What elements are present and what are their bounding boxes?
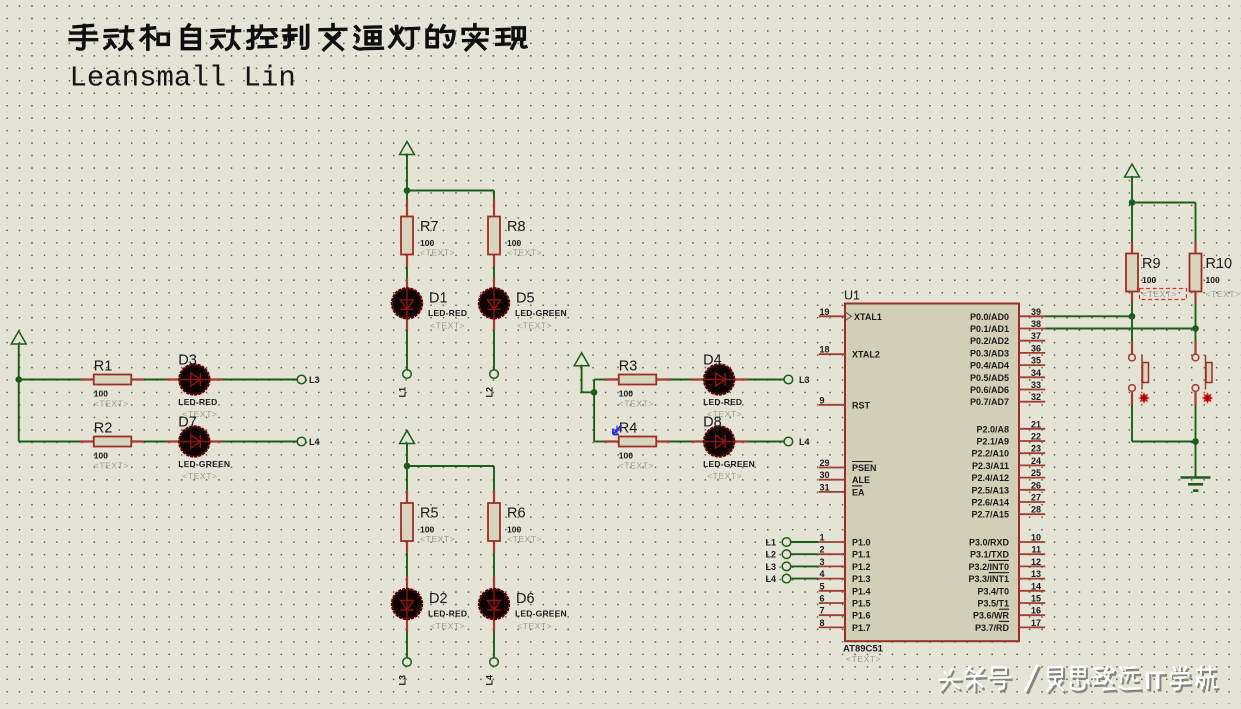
svg-text:100: 100 [619,451,633,461]
svg-text:5: 5 [820,581,825,591]
pins of D3 [166,378,222,380]
terminal (below D2) [403,658,412,667]
wire junction to button [1131,316,1133,341]
svg-text:P3.0/RXD: P3.0/RXD [969,538,1010,548]
svg-text:LED-RED: LED-RED [428,308,467,318]
svg-text:P3.1/TXD: P3.1/TXD [970,550,1010,560]
selection highlight (red dashed) around R9 TEXT [1140,289,1187,300]
wire down to R6 [493,466,495,490]
svg-text:P1.6: P1.6 [852,611,871,621]
svg-text:R8: R8 [507,219,526,235]
U1 pin 10 P3.0/RXD [969,533,1045,548]
pins of R6 [493,490,495,553]
svg-text:P0.1/AD1: P0.1/AD1 [970,324,1009,334]
IC U1 AT89C51 body [843,289,1019,665]
U1 pin 9 RST [819,395,871,410]
svg-text:P2.4/A12: P2.4/A12 [971,473,1009,483]
svg-text:R9: R9 [1142,256,1161,272]
svg-text:D7: D7 [178,415,197,431]
power symbol (middle top) [400,142,415,155]
svg-text:R2: R2 [94,421,113,437]
pin to button 2 [1194,341,1196,354]
svg-text:L2: L2 [765,550,776,560]
push button (left) [1129,354,1149,391]
pins of R7 [406,199,408,267]
svg-text:37: 37 [1031,331,1041,341]
svg-text:1: 1 [820,533,825,543]
svg-text:R5: R5 [420,506,439,522]
pins of D6 [493,576,495,631]
LED D3 (LED-RED) [178,353,217,420]
svg-text:<TEXT>: <TEXT> [94,461,129,471]
svg-text:25: 25 [1031,468,1041,478]
svg-text:100: 100 [94,451,108,461]
svg-text:24: 24 [1031,456,1041,466]
svg-text:LED-GREEN: LED-GREEN [515,308,567,318]
svg-text:100: 100 [619,389,633,399]
svg-text:4: 4 [820,569,825,579]
resistor R7 [401,217,455,258]
wire D5 to terminal [493,330,495,370]
svg-text:26: 26 [1031,480,1041,490]
pins of R3 [604,378,670,380]
LED D7 (LED-GREEN) [178,415,230,482]
junction [404,463,411,470]
wire pin39 to R9 net [1045,315,1132,317]
svg-text:39: 39 [1031,307,1041,317]
svg-text:<TEXT>: <TEXT> [1206,289,1241,299]
svg-text:36: 36 [1031,343,1041,353]
resistor R4 [619,421,657,471]
svg-text:9: 9 [820,395,825,405]
svg-text:19: 19 [820,307,830,317]
svg-text:<TEXT>: <TEXT> [94,399,129,409]
pins of R5 [406,490,408,553]
svg-text:15: 15 [1031,594,1041,604]
actuation marker (red star) [1138,392,1150,404]
title text (Chinese): 手动和自动控制交通灯的实现 [70,24,526,49]
svg-text:P0.5/AD5: P0.5/AD5 [970,373,1009,383]
wire R10 to junction [1195,303,1197,329]
wire power stem [1131,176,1133,203]
resistor R6 [488,503,542,544]
pins of D1 [406,278,408,330]
svg-text:<TEXT>: <TEXT> [182,471,217,481]
svg-text:P2.5/A13: P2.5/A13 [971,485,1009,495]
U1 pin 38 P0.1/AD1 [970,319,1045,334]
svg-text:RST: RST [852,400,871,410]
LED D1 (LED-RED) [392,288,467,330]
junction [1129,199,1136,206]
U1 pin 12 P3.2/INT0 [968,557,1045,572]
U1 pin 30 ALE [819,470,870,485]
svg-text:P3.7/RD: P3.7/RD [975,623,1010,633]
LED D8 (LED-GREEN) [703,415,755,482]
resistor R3 [619,359,657,409]
svg-text:P3.3/INT1: P3.3/INT1 [968,574,1009,584]
wire power stem [406,154,408,191]
svg-text:XTAL2: XTAL2 [852,350,880,360]
pins of R1 [80,378,144,380]
wire L2 to pin 2 [791,553,819,555]
wire down to R7 [406,191,408,200]
wire down to R8 [493,191,495,200]
wire junction to button [1195,329,1197,342]
wire D4 to terminal L3 [748,379,784,381]
U1 pin 39 P0.0/AD0 [970,307,1045,322]
svg-text:P3.5/T1: P3.5/T1 [977,599,1009,609]
power symbol (right rail) [1125,164,1140,177]
resistor R5 [401,503,455,544]
wire R8 to D5 [493,267,495,279]
svg-text:LED-RED: LED-RED [428,609,467,619]
U1 pin 28 P2.7/A15 [971,505,1045,520]
svg-text:32: 32 [1031,392,1041,402]
terminal L3 (left) [297,375,306,384]
svg-text:100: 100 [420,238,434,248]
power symbol (left rail) [11,331,26,344]
svg-text:P0.4/AD4: P0.4/AD4 [970,361,1009,371]
svg-text:L2: L2 [485,387,495,398]
LED D4 (LED-RED) [703,353,742,420]
U1 pin 4 P1.3 [819,569,871,584]
U1 pin 3 P1.2 [819,557,871,572]
U1 pin 19 XTAL1 [819,307,882,322]
svg-text:2: 2 [820,545,825,555]
U1 pin 27 P2.6/A14 [971,493,1045,508]
U1 pin 2 P1.1 [819,545,871,560]
svg-text:14: 14 [1031,581,1041,591]
pins of D2 [406,576,408,631]
svg-text:L4: L4 [765,574,776,584]
wire down to R10 [1195,203,1197,243]
svg-text:100: 100 [1142,275,1156,285]
svg-text:L3: L3 [799,375,810,385]
wire D1 to terminal [406,330,408,370]
junction [1129,313,1136,320]
U1 pin 21 P2.0/A8 [976,419,1045,434]
svg-text:P2.6/A14: P2.6/A14 [971,498,1009,508]
svg-text:P1.5: P1.5 [852,599,871,609]
svg-text:8: 8 [820,618,825,628]
wire D2 to terminal [406,631,408,658]
svg-text:<TEXT>: <TEXT> [619,461,654,471]
svg-text:LED-GREEN: LED-GREEN [515,609,567,619]
push button (right) [1192,354,1212,391]
U1 pin 11 P3.1/TXD [970,545,1045,560]
svg-text:P1.7: P1.7 [852,623,871,633]
wire button2 down [1195,405,1197,442]
wire to R4 [594,441,604,443]
svg-text:P2.3/A11: P2.3/A11 [972,461,1009,471]
svg-text:P3.6/WR: P3.6/WR [973,611,1010,621]
junction [1192,438,1199,445]
svg-text:<TEXT>: <TEXT> [430,320,465,330]
U1 pin 17 P3.7/RD [975,618,1045,633]
terminal L3 (left of U1) [782,562,791,571]
wire D7 to terminal L4 [222,441,297,443]
pin below button 2 [1194,391,1196,405]
svg-text:D4: D4 [703,353,722,369]
U1 pin 37 P0.2/AD2 [970,331,1045,346]
power symbol (middle bottom) [400,431,415,444]
wire to R3 [594,379,604,381]
svg-text:<TEXT>: <TEXT> [619,399,654,409]
svg-text:100: 100 [507,238,521,248]
U1 pin 36 P0.3/AD3 [970,343,1045,358]
svg-text:P3.2/INT0: P3.2/INT0 [968,562,1009,572]
svg-text:13: 13 [1031,569,1041,579]
wire R2 to D7 [144,441,166,443]
wire D3 to terminal L3 [222,379,297,381]
svg-text:L3: L3 [398,675,408,686]
terminal L4 (left) [297,437,306,446]
svg-text:6: 6 [820,594,825,604]
terminal L1 (left of U1) [782,538,791,547]
wire R6 to D6 [493,553,495,576]
svg-text:3: 3 [820,557,825,567]
svg-text:R4: R4 [619,421,638,437]
wire across to R10 [1132,202,1196,204]
terminal L4 (left of U1) [782,574,791,583]
pins of R9 [1131,242,1133,303]
terminal L3 (near U1) [784,375,793,384]
svg-text:27: 27 [1031,493,1041,503]
svg-text:U1: U1 [844,289,860,303]
svg-text:23: 23 [1031,444,1041,454]
svg-text:EA: EA [852,487,865,497]
resistor R8 [488,217,542,258]
terminal L2 (left of U1) [782,550,791,559]
U1 pin 34 P0.5/AD5 [970,368,1045,383]
svg-text:16: 16 [1031,606,1041,616]
svg-text:P0.2/AD2: P0.2/AD2 [970,336,1009,346]
svg-text:7: 7 [820,606,825,616]
svg-text:PSEN: PSEN [852,463,877,473]
svg-text:100: 100 [507,525,521,535]
svg-text:100: 100 [1206,275,1220,285]
svg-text:R3: R3 [619,359,638,375]
terminal L4 (near U1) [784,437,793,446]
svg-text:100: 100 [94,389,108,399]
wire pin38 to R10 net [1045,328,1195,330]
svg-text:L1: L1 [765,538,776,548]
svg-text:IT: IT [1144,667,1165,695]
pins of R2 [80,440,144,442]
LED D6 (LED-GREEN) [479,589,567,631]
svg-text:P0.7/AD7: P0.7/AD7 [970,397,1009,407]
svg-text:P1.1: P1.1 [852,550,871,560]
resistor R10 [1190,254,1241,300]
svg-text:28: 28 [1031,505,1041,515]
actuation marker (red star) [1202,392,1214,404]
svg-text:AT89C51: AT89C51 [843,644,884,655]
svg-text:<TEXT>: <TEXT> [507,534,542,544]
wire R5 to D2 [406,553,408,576]
svg-text:<TEXT>: <TEXT> [707,471,742,481]
svg-text:<TEXT>: <TEXT> [846,654,881,664]
U1 pin 23 P2.2/A10 [971,444,1045,459]
U1 pin 14 P3.4/T0 [977,581,1045,596]
wire across to R8 column [407,190,494,192]
U1 pin 29 PSEN [819,458,877,473]
junction [404,187,411,194]
U1 pin 31 EA [819,482,865,497]
U1 pin 24 P2.3/A11 [972,456,1045,471]
wire to ground [1195,442,1197,478]
svg-text:<TEXT>: <TEXT> [420,534,455,544]
watermark: 头条号 / 灵思致远IT学苑 [941,668,1218,693]
U1 pin 1 P1.0 [819,533,871,548]
svg-text:<TEXT>: <TEXT> [430,621,465,631]
svg-text:100: 100 [420,525,434,535]
svg-text:P1.3: P1.3 [852,574,871,584]
svg-text:R7: R7 [420,219,439,235]
wire vertical R3-R4 [593,380,595,442]
wire across to ground net [1132,441,1196,443]
wire down to R9 [1131,203,1133,243]
resistor R2 [94,421,132,471]
junction [591,389,598,396]
svg-text:P0.6/AD6: P0.6/AD6 [970,385,1009,395]
U1 pin 15 P3.5/T1 [977,594,1045,609]
resistor R1 [94,359,132,409]
U1 pin 33 P0.6/AD6 [970,380,1045,395]
svg-text:P2.2/A10: P2.2/A10 [971,449,1009,459]
U1 pin 26 P2.5/A13 [971,480,1045,495]
pins of D7 [166,440,222,442]
U1 pin 8 P1.7 [819,618,871,633]
wire to R1 [19,379,80,381]
U1 pin 16 P3.6/WR [973,606,1045,621]
pins of D8 [691,440,748,442]
svg-text:<TEXT>: <TEXT> [507,248,542,258]
svg-text:Leansmall Lin: Leansmall Lin [70,62,296,95]
svg-text:L3: L3 [765,562,776,572]
svg-text:L4: L4 [799,437,810,447]
U1 pin 35 P0.4/AD4 [970,356,1045,371]
terminal (below D6) [490,658,499,667]
svg-text:P1.2: P1.2 [852,562,871,572]
pin to button 1 [1131,341,1133,354]
U1 pin 25 P2.4/A12 [971,468,1045,483]
svg-text:22: 22 [1031,432,1041,442]
wire down to R5 [406,466,408,490]
svg-text:P3.4/T0: P3.4/T0 [977,586,1009,596]
svg-text:L4: L4 [485,675,495,686]
wire down to R2 row [18,380,20,442]
wire power stem [406,443,408,467]
wire power stem [18,343,20,380]
svg-text:10: 10 [1031,533,1041,543]
svg-text:P1.4: P1.4 [852,586,871,596]
U1 pin 13 P3.3/INT1 [968,569,1045,584]
U1 pin 32 P0.7/AD7 [970,392,1045,407]
wire R4 to D8 [670,441,691,443]
svg-text:29: 29 [820,458,830,468]
svg-text:P0.3/AD3: P0.3/AD3 [970,348,1009,358]
pin below button 1 [1131,391,1133,405]
pins of D5 [493,278,495,330]
U1 pin 22 P2.1/A9 [976,432,1045,447]
svg-text:D1: D1 [429,290,448,306]
svg-text:R10: R10 [1206,256,1233,272]
U1 pin 18 XTAL2 [819,345,880,360]
pins of R8 [493,199,495,267]
pins of R4 [604,440,670,442]
svg-text:R1: R1 [94,359,113,375]
svg-text:P2.0/A8: P2.0/A8 [976,424,1009,434]
LED D5 (LED-GREEN) [479,288,567,330]
wire R3 to D4 [670,379,691,381]
svg-text:ALE: ALE [852,475,870,485]
svg-text:D3: D3 [178,353,197,369]
svg-text:30: 30 [820,470,830,480]
junction [15,376,22,383]
svg-text:L3: L3 [309,375,320,385]
svg-text:<TEXT>: <TEXT> [1142,289,1177,299]
wire L4 to pin 4 [791,578,819,580]
terminal (below D1) [403,370,412,379]
terminal (below D5) [490,370,499,379]
pins of R10 [1194,242,1196,303]
svg-text:P2.7/A15: P2.7/A15 [971,510,1009,520]
svg-text:33: 33 [1031,380,1041,390]
svg-text:D5: D5 [516,290,535,306]
svg-text:11: 11 [1031,545,1041,555]
svg-text:21: 21 [1031,419,1041,429]
svg-text:18: 18 [820,345,830,355]
svg-text:D8: D8 [703,415,722,431]
wire to R2 [19,441,80,443]
svg-text:<TEXT>: <TEXT> [420,248,455,258]
junction [1192,325,1199,332]
svg-text:D6: D6 [516,591,535,607]
wire R9 to junction [1131,303,1133,317]
mouse cursor (blue) [613,425,623,435]
svg-text:R6: R6 [507,506,526,522]
svg-text:LED-RED: LED-RED [703,397,742,407]
LED D2 (LED-RED) [392,589,467,631]
svg-text:LED-RED: LED-RED [178,397,217,407]
wire button1 down [1131,405,1133,442]
svg-text:31: 31 [820,482,830,492]
svg-text:17: 17 [1031,618,1041,628]
wire power stem bend [582,365,595,393]
svg-text:38: 38 [1031,319,1041,329]
svg-text:34: 34 [1031,368,1041,378]
ground [1181,478,1211,491]
svg-text:<TEXT>: <TEXT> [517,621,552,631]
svg-text:P0.0/AD0: P0.0/AD0 [970,312,1009,322]
svg-text:L1: L1 [398,387,408,398]
svg-text:L4: L4 [309,437,320,447]
svg-text:LED-GREEN: LED-GREEN [178,459,230,469]
wire R7 to D1 [406,267,408,279]
wire L1 to pin 1 [791,541,819,543]
svg-text:LED-GREEN: LED-GREEN [703,459,755,469]
svg-text:35: 35 [1031,356,1041,366]
wire across to R6 column [407,465,494,467]
wire D8 to terminal L4 [748,441,784,443]
pins of D4 [691,378,748,380]
svg-text:P2.1/A9: P2.1/A9 [976,437,1009,447]
wire R1 to D3 [144,379,166,381]
svg-text:12: 12 [1031,557,1041,567]
svg-text:XTAL1: XTAL1 [854,312,882,322]
resistor R9 [1126,254,1177,300]
wire D6 to terminal [493,631,495,658]
